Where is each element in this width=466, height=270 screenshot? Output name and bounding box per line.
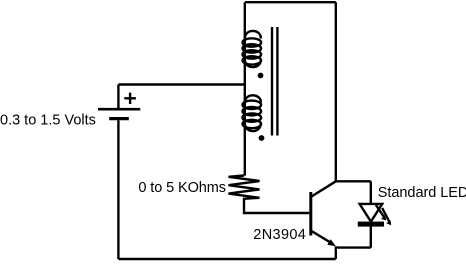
svg-text:0 to 5 KOhms: 0 to 5 KOhms xyxy=(138,180,225,196)
svg-text:0.3 to 1.5 Volts: 0.3 to 1.5 Volts xyxy=(0,112,96,128)
svg-text:Standard LED: Standard LED xyxy=(378,185,466,201)
svg-text:2N3904: 2N3904 xyxy=(253,227,306,243)
